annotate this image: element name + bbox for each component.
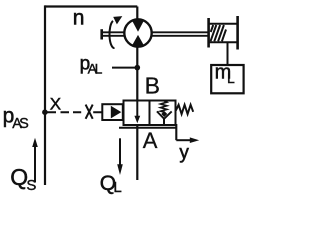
valve left cell flow path arrow B->A [136,101,138,117]
winch drum right flange [236,16,239,50]
pump triangle bottom (flow inward) [132,35,145,46]
svg-text:L: L [227,70,235,86]
valve right cell poppet ball [161,111,167,117]
p_AL leader line [112,67,137,69]
svg-text:A: A [143,128,158,153]
valve cell divider [149,101,151,126]
y indicator arrow [176,139,190,141]
valve right cell stem [163,119,165,125]
pump triangle top (flow inward) [132,20,145,32]
flow arrow Q_L [119,138,121,165]
wire pump down line to valve port B [136,46,138,101]
svg-text:L: L [113,179,121,195]
pilot actuator triangle [111,106,122,119]
rope line to load [227,42,229,65]
winch drum left flange [207,18,210,48]
svg-text:AL: AL [88,60,103,76]
load mass box [211,65,243,93]
pilot actuator box [102,104,123,120]
winch rope coil hatching [211,25,227,41]
svg-text:n: n [73,6,85,29]
wire left vertical line (supply line p_AS) [44,5,46,185]
wire top horizontal from left line to pump [45,5,137,7]
svg-text:B: B [145,73,160,99]
y indicator vertical [175,124,177,140]
svg-text:X: X [50,94,61,113]
flow arrow Q_S [34,146,36,183]
shaft end bar [100,29,103,39]
node p_AL junction dot [135,65,141,71]
valve right cell seat (V) [157,111,172,118]
node p_AS junction dot [42,109,48,115]
pilot dashed line X [47,111,102,113]
winch drum top line [209,23,238,25]
shaft left double line [102,32,125,36]
valve V1 body [124,101,176,126]
svg-text:y: y [179,142,189,163]
wire stub line below valve to y indicator [119,127,176,129]
rotation arrowhead [113,16,122,24]
wire valve port A line down [136,125,138,180]
shaft right double line to winch [152,32,208,36]
svg-text:AS: AS [12,116,29,132]
valve right cell spring-check: spring zigzag [161,101,167,112]
pump/motor U1 circle [124,19,151,46]
rotation arrow arc [109,21,114,48]
winch drum bottom line [209,41,238,43]
svg-text:S: S [26,177,36,194]
measuring point cross symbol [86,105,93,119]
wire pump top stub [136,7,138,21]
valve return spring (right) [176,105,193,114]
